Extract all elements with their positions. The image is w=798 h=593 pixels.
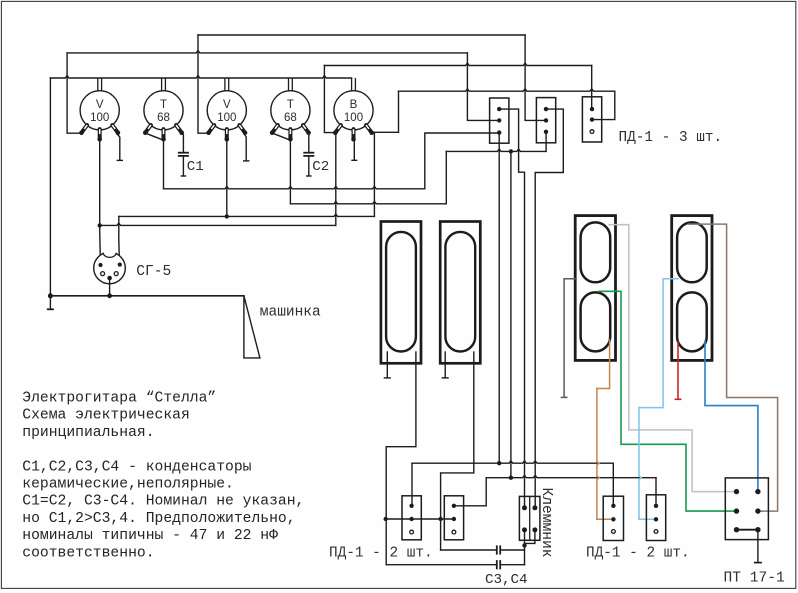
wire light-blue pickup4 to switchD pin2 <box>639 279 678 408</box>
wire riser x=324.4 to B100 left leg <box>324 66 336 133</box>
wire B100 right leg riser x=398.5 <box>372 91 399 132</box>
svg-text:машинка: машинка <box>260 305 321 321</box>
pickup P2 (neck single-coil) <box>440 222 480 364</box>
wire long vertical x=499.2 (switch1 pin3 down to line1) <box>498 133 500 463</box>
pickup P1 (neck single-coil) <box>381 222 421 364</box>
svg-text:C1: C1 <box>187 159 204 175</box>
switch SC2 (PD-1 bottom-right #2) <box>646 495 665 541</box>
wire pickup1 right lead down to C4 line <box>386 352 416 565</box>
wire bracket pot2 left leg to wiper <box>146 133 164 140</box>
pickup P3 (twin-coil) <box>575 216 615 361</box>
terminator red pickup4 lower-left <box>677 342 679 399</box>
svg-text:соответственно.: соответственно. <box>22 545 154 561</box>
wire WHB pot4 wiper to switch2 pin3 <box>289 140 291 204</box>
wire bridge ground line y=295.8 <box>50 295 244 297</box>
potentiometer R2 T68 <box>143 78 184 142</box>
svg-text:ПД-1 - 2 шт.: ПД-1 - 2 шт. <box>329 545 433 561</box>
svg-text:V: V <box>223 99 231 111</box>
ground bus y=78 over pot tops <box>50 76 351 78</box>
terminator pickup1 left lead <box>386 352 388 378</box>
wire riser x=67 to pot1 left leg <box>67 53 82 133</box>
terminator left ground stub <box>49 296 51 309</box>
wire light-gray pickup3 to PT pin1L <box>609 225 735 492</box>
switch PT 17-1 <box>725 478 768 540</box>
svg-text:принципиальная.: принципиальная. <box>22 425 154 441</box>
wire long vertical x=510.9 (WHB down to line2) <box>510 151 512 477</box>
wire ground riser x=50.4 down to bridge line <box>49 78 51 296</box>
bridge (mashinka) symbol <box>244 296 260 358</box>
svg-text:B: B <box>350 99 358 111</box>
wire top bus y=52.9 (pot1 left leg to switch1 pin2 riser) <box>67 51 467 53</box>
svg-text:Схема электрическая: Схема электрическая <box>22 408 189 424</box>
wire switch2 pin2 left riser to y35 <box>525 35 546 120</box>
wire switch3 pin1 riser <box>591 66 593 110</box>
wire pot3 wiper down <box>226 140 228 217</box>
svg-text:СГ-5: СГ-5 <box>136 264 171 280</box>
wire switch1 pin2 left riser <box>467 53 499 121</box>
svg-text:V: V <box>96 99 104 111</box>
svg-text:68: 68 <box>157 112 170 124</box>
switch SB1 (PD-1 bottom-left #1) <box>402 496 421 540</box>
wire orange pickup3 to switchC pin2 <box>597 340 610 389</box>
junction dots middle-left <box>98 223 102 227</box>
svg-text:керамические,неполярные.: керамические,неполярные. <box>22 477 234 493</box>
wire dark-blue pickup4 to PT pin1R <box>705 341 758 489</box>
svg-text:100: 100 <box>217 112 236 124</box>
svg-text:100: 100 <box>90 112 109 124</box>
wire bus y=65.5 (B100 left leg to switch3 pin1) <box>324 63 591 65</box>
switch SA3 (PD-1 top #3) <box>582 97 601 142</box>
wire riser x=198 to pot3 left leg <box>198 35 210 133</box>
switch SC1 (PD-1 bottom-right #1) <box>603 496 623 540</box>
capacitor C2 <box>307 133 309 152</box>
svg-text:ПД-1 - 2 шт.: ПД-1 - 2 шт. <box>586 546 690 562</box>
connector SG-5 (DIN) <box>94 252 126 284</box>
svg-text:100: 100 <box>344 112 363 124</box>
wire pin2 line y=519 <box>386 518 454 520</box>
svg-text:номиналы типичны - 47 и 22 нФ: номиналы типичны - 47 и 22 нФ <box>22 528 278 544</box>
wire terminal strip bottoms join <box>524 530 526 565</box>
terminator PT bottom stub <box>757 530 759 563</box>
wire line2 y=477.7 (switchB pin1 to switchD pin1) <box>454 478 486 506</box>
wire bus y=91.2 (B100 right leg to switch3 pin2 loop) <box>399 89 615 91</box>
switch SA2 (PD-1 top #2) <box>536 98 555 143</box>
svg-text:T: T <box>287 99 294 111</box>
svg-text:T: T <box>160 99 167 111</box>
terminator dark-gray pickup3 left <box>564 279 575 397</box>
wire pot1 wiper down to DIN pin <box>99 139 102 265</box>
wire green pickup3 to PT pin2L <box>599 291 735 511</box>
svg-text:68: 68 <box>284 112 297 124</box>
capacitor C4 <box>386 564 496 566</box>
wire WHA pot2 wiper to switch1 pin3 <box>163 140 165 189</box>
svg-text:Электрогитара “Стелла”: Электрогитара “Стелла” <box>22 391 216 407</box>
terminator pot3 right leg <box>244 134 246 161</box>
wire WHD pot1 wiper / B100 left leg net <box>100 223 336 225</box>
potentiometer R4 T68 <box>270 78 311 142</box>
terminator pickup2 left lead <box>444 352 446 378</box>
svg-text:C1=C2, C3-C4. Номинал не указа: C1=C2, C3-C4. Номинал не указан, <box>22 494 304 510</box>
svg-text:Клеммник: Клеммник <box>538 488 554 558</box>
potentiometer R1 V100 <box>79 78 120 142</box>
terminator pot1 right leg <box>117 134 120 160</box>
wire line1 y=463.2 (switchA pin1 to switchC pin1) <box>411 463 413 506</box>
wire DIN shield pin down <box>109 278 111 296</box>
potentiometer R3 V100 <box>206 78 247 142</box>
terminal strip (Klemmnik) <box>519 496 540 540</box>
wire top bus y=35 (pot3 left leg to switch2 pin2 riser) <box>198 34 525 36</box>
wire brown-gray pickup4 to PT pin2R <box>689 224 778 511</box>
terminator pot5 wiper <box>353 139 356 160</box>
switch SB2 (PD-1 bottom-left #2) <box>444 496 463 540</box>
svg-text:C2: C2 <box>312 159 329 175</box>
capacitor C1 <box>182 133 184 152</box>
switch SA1 (PD-1 top #1) <box>490 98 509 143</box>
svg-text:C1,C2,C3,C4 - конденсаторы: C1,C2,C3,C4 - конденсаторы <box>22 459 251 475</box>
capacitor C3 <box>441 549 496 551</box>
wire PT bottom link bar <box>737 529 758 531</box>
svg-text:ПТ 17-1: ПТ 17-1 <box>724 571 786 587</box>
wire switch3 pin2 loop right <box>592 91 615 119</box>
wire WHC din right pin / pot3 wiper / B100 right leg net <box>118 216 121 264</box>
potentiometer R5 B100 <box>333 78 374 142</box>
junction dot WHB riser top <box>509 149 513 153</box>
svg-text:C3,C4: C3,C4 <box>485 572 528 588</box>
pickup P4 (twin-coil) <box>672 216 712 361</box>
wire bracket pot4 left leg to wiper <box>273 133 291 140</box>
wire pickup2 right lead down joins line1 <box>473 352 475 463</box>
wire switch1 pin1 to terminal strip left column <box>499 109 524 508</box>
wire switch2 pin1 to terminal strip right column <box>535 109 563 508</box>
svg-text:но C1,2>C3,4. Предположительно: но C1,2>C3,4. Предположительно, <box>22 511 295 527</box>
svg-text:ПД-1 - 3 шт.: ПД-1 - 3 шт. <box>619 130 723 146</box>
